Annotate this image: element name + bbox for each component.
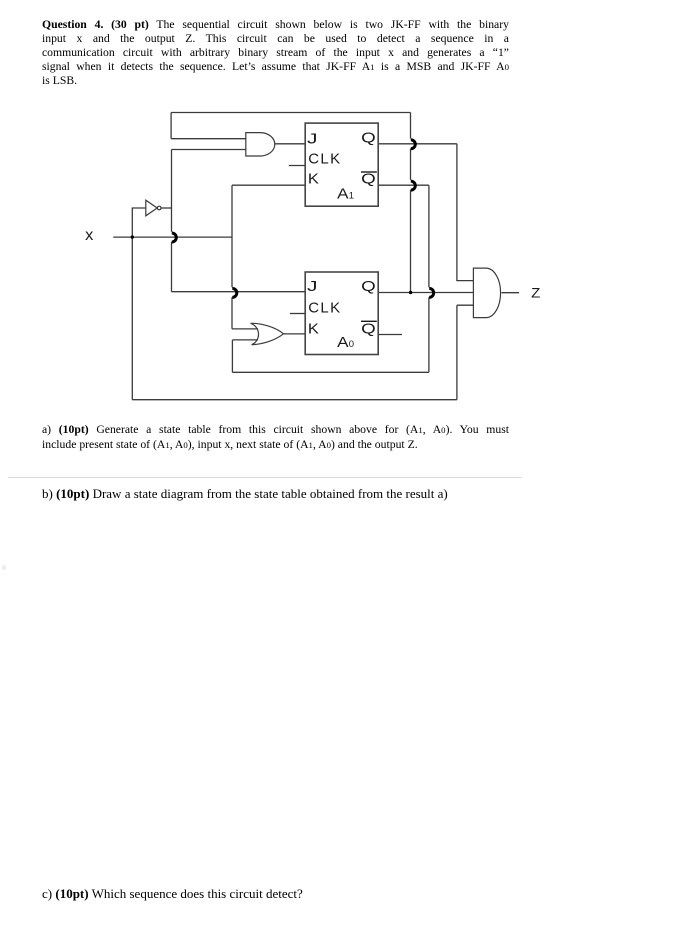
wire: Z gate output xyxy=(502,292,520,294)
svg-text:J: J xyxy=(307,278,318,295)
svg-text:K: K xyxy=(308,320,319,337)
separator rule xyxy=(8,477,522,478)
svg-text:x: x xyxy=(85,227,93,244)
part c xyxy=(42,886,509,901)
and-gate U4 (output Z) xyxy=(473,268,500,318)
svg-text:1: 1 xyxy=(349,191,354,202)
crossover hop: Qbar rail over Q wire of A0 xyxy=(429,288,434,297)
JK flip-flop A1 box xyxy=(305,123,378,206)
or-gate U2 (feeds K of A0) xyxy=(251,323,284,344)
wire: inverter input tap from x node xyxy=(132,208,146,237)
svg-text:J: J xyxy=(307,131,318,148)
crossover hop: K rail over J wire of A0 xyxy=(232,288,237,297)
svg-text:Z: Z xyxy=(531,286,540,301)
wire: x feedback bottom horizontal xyxy=(132,399,457,401)
wire: AND gate U1 top input xyxy=(171,138,246,140)
junction node: Q of A0 / top loop xyxy=(409,291,412,294)
faint speck xyxy=(2,565,6,570)
svg-text:Q: Q xyxy=(361,130,376,146)
wire: Q of A0 output to Z gate middle input xyxy=(378,292,473,294)
and-gate U1 (feeds J of A1) xyxy=(246,133,275,156)
svg-text:0: 0 xyxy=(349,339,354,350)
wire: AND gate U1 bottom input xyxy=(172,149,247,151)
paragraph line 2 xyxy=(42,32,509,46)
inverter U3 bubble xyxy=(157,206,161,210)
wire: OR gate U2 bottom input xyxy=(232,339,258,341)
wire: top feedback (Q of A0 loop), horizontal xyxy=(171,112,410,114)
paragraph line 1 xyxy=(42,18,509,32)
crossover hop: top loop vertical over Qbar wire of A1 xyxy=(411,181,416,190)
wire: Qbar of A1 feedback bottom horizontal xyxy=(232,371,429,373)
wire: Q of A1 vertical down to Z gate top input xyxy=(457,144,474,281)
wire: K input of A1 horizontal xyxy=(232,184,305,186)
wire: OR bottom input vertical down to Qbar feedback xyxy=(231,340,233,372)
svg-text:Q: Q xyxy=(361,172,376,188)
wire: inverter output to xbar rail xyxy=(161,207,172,209)
part a line 1 xyxy=(42,423,509,437)
wire: OR gate U2 top input xyxy=(232,328,258,330)
svg-text:CLK: CLK xyxy=(308,300,341,317)
wire: xbar vertical (inverter output rail), broken at hop over x wire xyxy=(171,150,173,292)
svg-text:A: A xyxy=(337,335,349,351)
inverter U3 triangle xyxy=(146,200,157,216)
wire: Qbar of A1 vertical down, broken at hop over Q of A0 wire xyxy=(428,185,430,372)
svg-text:A: A xyxy=(337,187,349,203)
paragraph line 4 xyxy=(42,60,509,74)
junction node: x input tap xyxy=(131,235,134,238)
svg-text:Q: Q xyxy=(361,279,376,295)
svg-text:K: K xyxy=(308,171,319,188)
wire: CLK stub of A1 xyxy=(289,165,305,167)
wire: xbar to J input of A0, horizontal xyxy=(172,291,306,293)
wire: top loop vertical at x=410.5, broken at hops over Q and Qbar wires xyxy=(410,113,412,293)
paragraph line 3 xyxy=(42,46,509,60)
wire: AND gate U1 output to J of A1 xyxy=(275,143,305,145)
wire: x/K vertical rail down to OR input, broken at hop over J wire xyxy=(231,185,233,329)
wire: x feedback left vertical up to x node xyxy=(131,237,133,400)
crossover hop: top loop vertical over Q wire of A1 xyxy=(411,140,416,149)
overline of Qbar A0 xyxy=(361,320,377,322)
wire: Qbar of A1 output horizontal xyxy=(378,184,429,186)
wire: OR gate U2 output to K of A0 xyxy=(283,333,305,335)
overline of Qbar A1 xyxy=(361,171,377,173)
part a line 2 xyxy=(42,438,509,452)
wire: Qbar stub of A0 xyxy=(378,334,402,336)
paragraph line 5 xyxy=(42,74,509,88)
crossover hop: xbar rail over x wire xyxy=(172,233,177,242)
wire: x input horizontal xyxy=(113,236,232,238)
part b xyxy=(42,486,509,501)
wire: x feedback right vertical to Z gate bottom input xyxy=(456,305,458,400)
wire: left vertical from top wire down to AND input a xyxy=(170,113,172,139)
wire: Z gate bottom input stub xyxy=(457,304,474,306)
JK flip-flop A0 box xyxy=(305,272,378,355)
wire: CLK stub of A0 xyxy=(290,313,305,315)
svg-text:Q: Q xyxy=(361,322,376,338)
svg-text:CLK: CLK xyxy=(308,151,341,168)
wire: Q of A1 output horizontal xyxy=(378,143,457,145)
